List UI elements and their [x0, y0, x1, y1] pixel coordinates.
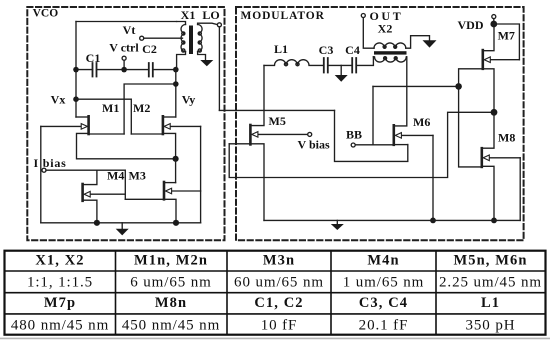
wire M3 source line [125, 199, 176, 223]
wire M8 gate loop down [519, 158, 521, 221]
wire V ctrl stem [123, 60, 125, 69]
svg-text:M2: M2 [133, 101, 150, 115]
capacitor C1 [93, 63, 97, 77]
svg-text:MODULATOR: MODULATOR [241, 10, 325, 22]
wire LO down to M6 source line [335, 110, 408, 161]
wire Vy vertical [175, 70, 177, 117]
terminal BB [351, 143, 355, 147]
wire M6 gate down [432, 135, 434, 220]
transformer X2 secondary winding top [374, 43, 406, 48]
wire M1 drain lead [76, 116, 89, 118]
svg-text:X2: X2 [378, 22, 393, 36]
svg-text:M8: M8 [498, 131, 515, 145]
node Vy upper [173, 81, 179, 87]
MODULATOR dashed enclosure [236, 7, 524, 240]
wire dot1 up to M7 drain [459, 69, 483, 87]
node Vx [73, 96, 79, 102]
capacitor C4 [352, 58, 356, 73]
terminal V bias [308, 132, 312, 136]
svg-text:M5: M5 [269, 114, 286, 128]
transistor M3 [163, 182, 166, 199]
svg-text:Vy: Vy [182, 93, 196, 107]
svg-text:M1n, M2n: M1n, M2n [134, 252, 208, 268]
wire VCO bottom rail [41, 222, 201, 224]
terminal I bias [42, 168, 46, 172]
ground VCO bottom [121, 223, 123, 229]
wire M2 bottom segment [131, 133, 163, 135]
node junction V ctrl [121, 67, 127, 73]
svg-text:1:1, 1:1.5: 1:1, 1:1.5 [27, 275, 93, 291]
svg-text:450 nm/45 nm: 450 nm/45 nm [122, 317, 220, 333]
transistor M7 [481, 50, 484, 69]
svg-text:VDD: VDD [458, 18, 484, 32]
svg-text:M8n: M8n [155, 295, 187, 311]
wire tail to M3 drain [175, 159, 177, 183]
wire M5 source leads [229, 144, 264, 221]
wire M3 drain lead [164, 182, 176, 184]
wire X1 primary bottom leg [177, 52, 186, 70]
wire BB riser [372, 86, 374, 144]
wire M6 source right leg [394, 144, 408, 146]
node output junction dot1 [455, 83, 462, 90]
wire M4 drain lead [83, 170, 97, 184]
transistor M1 [87, 116, 90, 134]
svg-text:X1: X1 [181, 8, 196, 22]
terminal V ctrl [122, 56, 126, 60]
wire L1 left leg and M5 drain [250, 65, 264, 125]
node tail junction [173, 156, 179, 162]
wire X2 primary right leg to M6 drain [394, 57, 407, 126]
wire Vt to X1 [144, 37, 183, 39]
svg-text:M3: M3 [129, 169, 146, 183]
svg-text:480 nm/45 nm: 480 nm/45 nm [11, 317, 109, 333]
transistor M2 [162, 116, 165, 134]
svg-text:C4: C4 [345, 43, 360, 57]
svg-text:M4n: M4n [367, 252, 399, 268]
wire LO into modulator [219, 109, 334, 111]
svg-text:350 pH: 350 pH [466, 317, 516, 333]
wire LO vertical [218, 27, 220, 111]
svg-text:I bias: I bias [34, 156, 67, 170]
capacitor C2 [149, 63, 153, 77]
wire M7 gate loop [494, 24, 520, 60]
svg-text:M5n, M6n: M5n, M6n [453, 252, 527, 268]
node M4 source on rail [94, 220, 100, 226]
wire M4 source lead [83, 200, 97, 223]
ground X1 secondary [200, 60, 213, 66]
transistor M5 [249, 125, 252, 144]
wire BB to M6 source [355, 144, 394, 146]
svg-text:M6: M6 [413, 115, 430, 129]
wire M2 source to tail [163, 133, 176, 158]
svg-text:M7p: M7p [44, 295, 76, 311]
VCO dashed enclosure [27, 7, 224, 240]
terminal VDD [492, 15, 496, 19]
wire M7 drain to dot2 [483, 69, 494, 113]
svg-text:X1, X2: X1, X2 [35, 252, 84, 268]
wire M1 gate rail vertical [40, 126, 42, 222]
node junction cap right [173, 67, 179, 73]
wire X1 secondary to LO [198, 23, 218, 24]
svg-text:20.1 fF: 20.1 fF [359, 317, 409, 333]
svg-text:60 um/65 nm: 60 um/65 nm [234, 275, 324, 291]
node dot2 [491, 109, 498, 116]
transistor M8 [480, 148, 483, 167]
wire Vy cross-couple to M1 [124, 84, 176, 134]
parameter table [5, 251, 546, 335]
svg-text:10 fF: 10 fF [261, 317, 298, 333]
svg-text:M4: M4 [107, 169, 124, 183]
capacitor C3 [324, 58, 328, 73]
wire I bias line [46, 170, 125, 199]
ground modulator bottom [336, 220, 338, 224]
svg-text:2.25 um/45 nm: 2.25 um/45 nm [439, 275, 542, 291]
transformer X1 secondary winding [198, 25, 203, 52]
wire M7 source to VDD [483, 24, 494, 51]
wire Vx cross-couple to M2 [76, 99, 131, 134]
transformer X2 primary winding bottom [373, 57, 406, 62]
svg-text:6 um/65 nm: 6 um/65 nm [130, 275, 212, 291]
node M6 gate on rail [430, 218, 436, 224]
ground between C3 C4 [340, 65, 342, 75]
wire C3 to C4 [328, 64, 352, 66]
svg-text:C3, C4: C3, C4 [359, 295, 408, 311]
svg-text:L1: L1 [481, 295, 500, 311]
wire dot1 down to M8 source [459, 86, 482, 166]
svg-text:Vx: Vx [51, 93, 66, 107]
svg-text:V bias: V bias [298, 138, 330, 152]
node junction C1 left [73, 67, 79, 73]
transformer X1 core [189, 26, 193, 55]
svg-text:M1: M1 [102, 101, 119, 115]
svg-text:LO: LO [202, 8, 219, 22]
wire M8 source down [482, 166, 494, 220]
terminal LO [217, 23, 221, 27]
svg-text:C2: C2 [142, 42, 157, 56]
svg-text:BB: BB [346, 128, 362, 142]
wire X2 secondary right to ground [406, 36, 430, 49]
wire M2 drain lead [163, 116, 176, 118]
wire output node horizontal [373, 85, 459, 87]
svg-text:C1: C1 [86, 51, 101, 65]
wire dot2 to M8 drain [482, 112, 494, 148]
transistor M4 [81, 184, 84, 201]
svg-text:M3n: M3n [263, 252, 295, 268]
terminal Vt [140, 36, 144, 40]
terminal OUT [361, 14, 365, 18]
svg-text:VCO: VCO [33, 8, 59, 20]
node M3 source on rail [173, 220, 179, 226]
wire C4 to X2 [356, 57, 373, 66]
wire X1 secondary to ground [198, 52, 206, 61]
wire X1 primary top leg [177, 22, 186, 25]
faint page rule [0, 337, 550, 339]
capacitor bank wire [76, 69, 176, 71]
svg-text:V ctrl: V ctrl [109, 41, 139, 55]
wire X2 secondary to OUT [363, 18, 374, 49]
svg-text:C3: C3 [319, 43, 334, 57]
node M8 source on rail [491, 218, 497, 224]
ground X2 secondary [423, 40, 437, 47]
wire M5 source long feedback line [229, 112, 494, 177]
wire modulator bottom rail [264, 219, 520, 221]
transformer X1 primary winding [181, 25, 186, 52]
svg-text:C1, C2: C1, C2 [254, 295, 303, 311]
wire M1 source to tail [77, 133, 176, 158]
wire M2 gate rail vertical [200, 126, 202, 222]
svg-text:M7: M7 [498, 29, 515, 43]
node VDD junction [490, 21, 497, 28]
svg-text:1 um/65 nm: 1 um/65 nm [343, 275, 425, 291]
wire VCO top rail [76, 21, 177, 23]
transistor M6 [392, 125, 395, 145]
wire left vertical Vdd-side down to M1 drain [75, 22, 77, 118]
svg-text:Vt: Vt [123, 23, 136, 37]
svg-text:L1: L1 [274, 42, 288, 56]
inductor L1 [264, 60, 324, 66]
wire M1 bottom segment [89, 133, 125, 135]
transformer X2 core [374, 51, 407, 54]
